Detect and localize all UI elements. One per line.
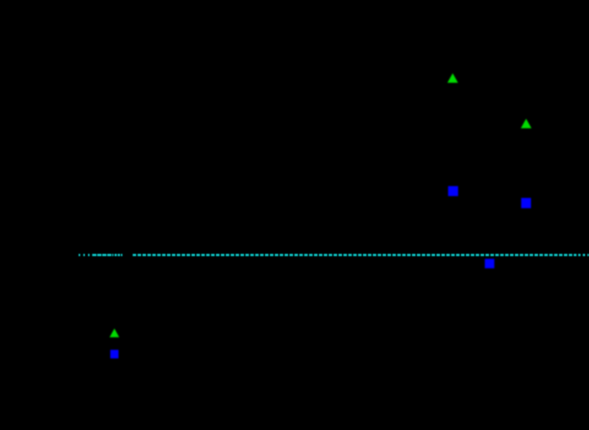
zero line right-end dash segment: [578, 254, 589, 256]
zero line dotted start segment: [79, 254, 91, 256]
blue square marker 3: [485, 259, 495, 269]
green triangle marker 1: [447, 73, 458, 82]
blue square marker 1: [448, 186, 458, 196]
blue square marker 4: [110, 350, 118, 359]
blue square marker 2: [521, 198, 531, 208]
zero line short dash segment: [115, 254, 123, 256]
green triangle marker 2: [521, 119, 532, 128]
zero line main dashed segment: [133, 254, 577, 256]
green triangle marker 3: [110, 329, 120, 338]
zero line dense dash segment: [92, 254, 113, 256]
